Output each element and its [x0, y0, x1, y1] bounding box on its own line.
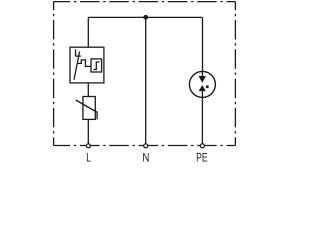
internal lead bottom [201, 91, 203, 97]
terminal L [86, 144, 90, 148]
triggered spark gap (L path) [70, 47, 104, 83]
gas-filled indicator dot [206, 85, 209, 88]
spark gap box outline [70, 47, 104, 83]
wire PE branch top bus down to spark gap circle [202, 17, 204, 71]
wire top bus from L branch to PE branch [88, 16, 202, 18]
wire spark gap circle to terminal PE [201, 97, 203, 145]
wire from top bus down to spark gap box [87, 17, 89, 47]
svg-text:N: N [142, 150, 149, 164]
upper electrode arrow (down) [199, 76, 206, 83]
circle body [189, 71, 215, 97]
terminal N [144, 144, 148, 148]
svg-text:L: L [86, 150, 91, 164]
device enclosure dash-dot border [54, 2, 236, 146]
internal lead top [201, 71, 203, 76]
svg-text:PE: PE [196, 150, 208, 164]
N-PE spark gap (gas discharge tube) [189, 71, 215, 97]
node junction on N line [143, 15, 148, 20]
lower electrode arrow (up) [199, 85, 206, 91]
slanted electrode [74, 52, 80, 80]
wire varistor to terminal L [87, 119, 89, 145]
wire spark gap box to varistor [87, 83, 89, 97]
varistor (MOV, L path) [76, 97, 97, 120]
step pulse symbol [93, 62, 99, 70]
trigger unit box [91, 59, 102, 72]
terminal PE [200, 144, 204, 148]
electrode stub [75, 49, 77, 56]
trigger connection stepped wire [77, 60, 91, 67]
electrode bar [75, 55, 81, 57]
varistor body [83, 97, 95, 120]
wire N branch junction to terminal N [145, 17, 147, 145]
varistor diagonal with tail [76, 100, 97, 119]
